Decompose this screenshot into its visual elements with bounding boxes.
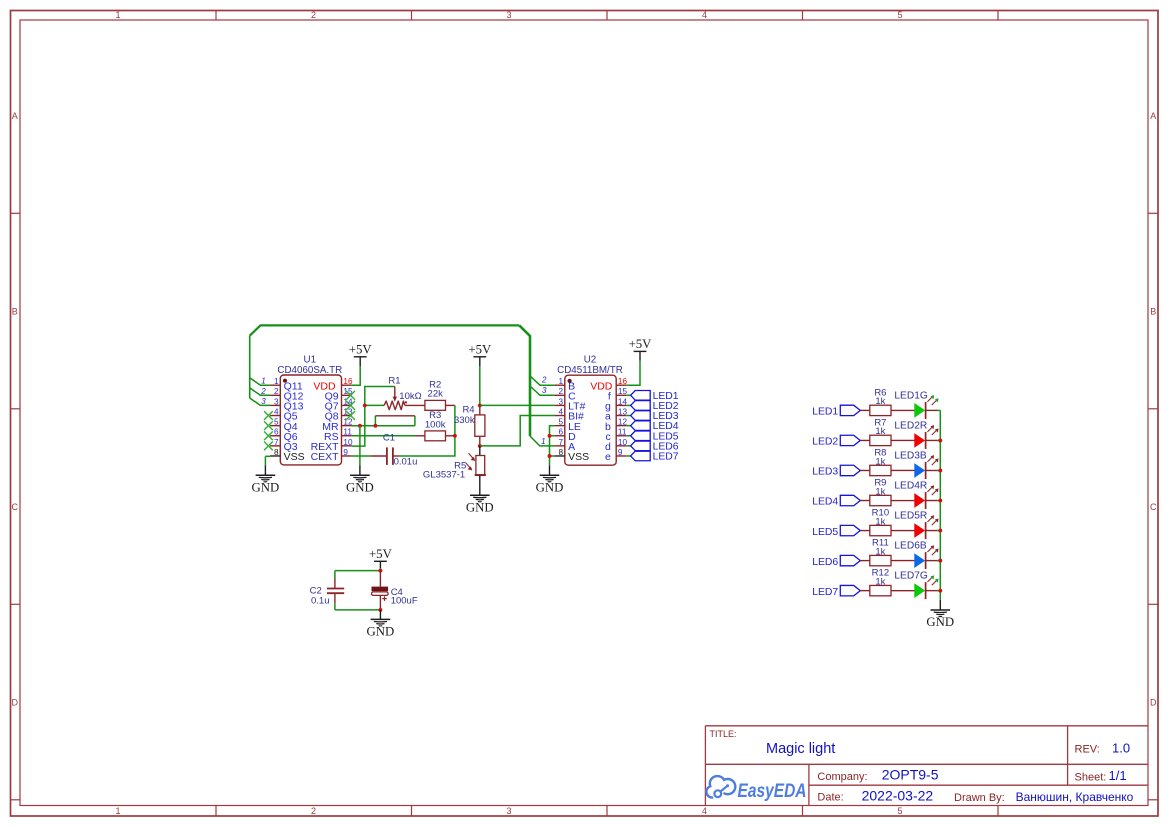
svg-text:5: 5 [559,418,564,427]
wire net 3 to U2.C [530,386,555,395]
U1 pin numbers [274,377,353,457]
svg-text:C: C [12,502,19,512]
wire LED ground rail [939,410,941,610]
svg-text:100k: 100k [425,419,446,430]
junction MR loop branch [373,424,377,428]
svg-text:A: A [1150,111,1156,121]
net flag LED2 (array input) [812,435,860,447]
resistor R7 1k [860,435,914,445]
svg-text:2: 2 [274,387,279,396]
svg-text:9: 9 [343,448,348,457]
svg-text:2: 2 [559,387,564,396]
wire R4 top to U2 LT# [480,404,555,406]
net flag LED5 (array input) [812,525,860,537]
svg-text:10kΩ: 10kΩ [399,391,421,402]
svg-text:1: 1 [559,377,564,386]
bus wire numbers at U2 [541,376,547,446]
svg-text:5: 5 [897,806,902,816]
svg-text:e: e [605,451,611,463]
resistor R10 1k [860,525,914,535]
svg-text:U1: U1 [304,354,317,365]
junction MR-GND branch [358,424,362,428]
svg-text:LED5: LED5 [812,527,838,538]
net flag LED7 at U2 pin 9 [626,451,679,462]
wire U1 CEXT to C1 [352,455,371,457]
wire U1 VSS to ground [265,456,270,475]
svg-text:14: 14 [618,397,628,406]
wire C4 bottom to ground [379,610,381,620]
resistor R2 22k [425,400,455,410]
wire bus U1 outputs to U2 inputs [250,325,530,436]
svg-text:C: C [1150,502,1157,512]
svg-text:6: 6 [559,428,564,437]
svg-text:LED1G: LED1G [894,391,927,402]
svg-text:1: 1 [274,377,279,386]
svg-text:22k: 22k [428,389,444,400]
svg-text:3: 3 [274,397,279,406]
svg-text:2OPT9-5: 2OPT9-5 [882,766,939,782]
svg-text:6: 6 [274,428,279,437]
capacitor C1 0.01u [371,447,400,465]
svg-text:REV:: REV: [1075,744,1100,756]
junction R4 bottom [478,444,482,448]
svg-text:1: 1 [541,437,545,446]
junction C4 bottom [378,608,382,612]
svg-text:1k: 1k [875,426,885,437]
wire LED5 cathode to ground rail [937,530,940,532]
svg-text:GND: GND [536,481,564,495]
wire net 1 to U2.A [530,436,555,446]
svg-text:16: 16 [343,377,353,386]
junction LED4 cathode [938,499,942,503]
junction U2 VSS [548,454,552,458]
svg-text:1k: 1k [875,576,885,587]
svg-text:Sheet:: Sheet: [1075,771,1107,783]
capacitor C2 0.1u [327,579,344,604]
svg-text:B: B [12,307,18,317]
net flag LED1 (array input) [812,405,860,417]
wire U1 RS to R3 [352,435,416,437]
resistor R8 1k [860,465,914,475]
svg-text:LED1: LED1 [812,407,838,418]
svg-text:0.1u: 0.1u [311,595,330,606]
svg-text:2: 2 [311,10,316,20]
svg-text:B: B [1150,307,1156,317]
svg-text:GND: GND [367,625,395,639]
+5V supply at R4 [468,343,492,357]
svg-text:10: 10 [343,438,353,447]
svg-text:+5V: +5V [629,337,653,351]
svg-text:CD4060SA.TR: CD4060SA.TR [277,365,342,376]
svg-text:1k: 1k [875,486,885,497]
junction LED7 cathode [938,589,942,593]
svg-text:16: 16 [618,377,628,386]
photoresistor R5 GL3537-1 [466,446,486,476]
svg-text:LED4R: LED4R [894,481,927,492]
LED D3 LED3B [915,455,939,479]
svg-text:LED2R: LED2R [894,421,927,432]
wire +5V to C2/C4 [335,561,381,578]
junction LED3 cathode [938,469,942,473]
svg-text:9: 9 [618,448,623,457]
net flag LED6 (array input) [812,555,860,567]
svg-text:+5V: +5V [369,547,393,561]
svg-text:2: 2 [311,806,316,816]
capacitor C4 100uF electrolytic [372,571,389,610]
net flag LED4 (array input) [812,495,860,507]
svg-text:R1: R1 [388,375,400,386]
wire LED4 cathode to ground rail [937,500,940,502]
svg-text:4: 4 [702,806,707,816]
svg-text:3: 3 [542,386,547,395]
svg-text:LED3: LED3 [812,467,838,478]
svg-text:1: 1 [115,806,120,816]
+5V supply at U1 VDD [349,343,373,357]
LED D4 LED4R [915,485,939,509]
wire +5V to U2 pin16 [626,351,640,385]
svg-text:7: 7 [274,438,279,447]
wire LED2 cathode to ground rail [937,439,940,441]
svg-text:Ванюшин, Кравченко: Ванюшин, Кравченко [1016,790,1134,804]
wire R1 wiper / left terminal / U1 REXT [352,387,395,447]
resistor R9 1k [860,495,914,505]
svg-text:4: 4 [702,10,707,20]
svg-text:VSS: VSS [284,451,305,463]
wire R4 bottom to U2 BI# [480,416,555,446]
EasyEDA logo [706,776,806,802]
svg-text:5: 5 [897,10,902,20]
svg-text:10: 10 [618,438,628,447]
svg-text:GND: GND [466,500,494,514]
svg-text:TITLE:: TITLE: [710,729,737,739]
svg-text:1k: 1k [875,516,885,527]
resistor R4 330k [475,405,485,446]
wire LED7 cathode to ground rail [937,590,940,592]
junction C4 top [378,569,382,573]
svg-text:D: D [1150,698,1157,708]
resistor R12 1k [860,585,914,595]
svg-text:4: 4 [559,407,564,416]
svg-text:11: 11 [343,428,352,437]
svg-text:1.0: 1.0 [1112,741,1130,756]
svg-text:2022-03-22: 2022-03-22 [862,787,934,803]
svg-text:A: A [12,111,18,121]
svg-text:1k: 1k [875,456,885,467]
wire R2/R3 right to U1 CEXT [399,405,455,456]
svg-text:11: 11 [618,428,627,437]
svg-text:GL3537-1: GL3537-1 [423,470,465,481]
title block [705,726,1148,806]
svg-text:VSS: VSS [568,451,589,463]
svg-text:0.01u: 0.01u [394,456,418,467]
svg-text:CEXT: CEXT [311,451,340,463]
junction LED2 cathode [938,438,942,442]
wire C2 bottom to C4 bottom [335,603,381,610]
svg-text:LED7: LED7 [653,451,679,462]
wire R5 to ground [479,475,481,495]
svg-text:Company:: Company: [817,771,867,783]
wire net 2 U1.Q12 [250,388,270,395]
svg-text:3: 3 [261,397,266,406]
ground at R5 [466,495,494,514]
U1 no-connect marks pins 4-7 [264,411,273,450]
svg-text:LED4: LED4 [812,497,838,508]
svg-text:CD4511BM/TR: CD4511BM/TR [557,365,623,376]
svg-text:Date:: Date: [817,791,843,803]
junction R3 right terminal [453,434,457,438]
net flag LED6 at U2 pin 10 [626,441,679,452]
svg-text:15: 15 [618,387,628,396]
svg-text:1: 1 [261,377,265,386]
LED D5 LED5R [915,515,939,539]
net flag LED5 at U2 pin 11 [626,431,679,442]
svg-text:5: 5 [274,418,279,427]
wire U1 MR net with loop [352,416,415,426]
svg-text:GND: GND [926,615,954,629]
svg-text:U2: U2 [584,354,597,365]
svg-text:7: 7 [559,438,564,447]
wire U2 LE,D,VSS to ground [550,426,555,476]
svg-text:LED6: LED6 [812,557,838,568]
IC U1 CD4060SA.TR [270,375,352,465]
svg-text:1: 1 [115,10,120,20]
wire MR to ground [359,426,361,476]
svg-text:4: 4 [274,407,279,416]
net flag LED1 at U2 pin 15 [626,391,679,402]
U1 pin names [284,380,340,463]
bus wire numbers at U1 [260,377,266,406]
svg-text:2: 2 [260,387,266,396]
svg-text:8: 8 [559,448,564,457]
resistor R1 10k potentiometer [384,387,425,410]
svg-text:D: D [12,698,19,708]
svg-text:2: 2 [541,376,547,385]
svg-text:R4: R4 [462,404,474,415]
svg-text:LED6B: LED6B [894,541,926,552]
svg-text:3: 3 [506,806,511,816]
svg-text:8: 8 [274,448,279,457]
wire +5V to R4 top [479,357,481,406]
wire net 1 U1.Q11 [250,378,270,385]
resistor R11 1k [860,555,914,565]
+5V supply at U2 VDD [629,337,653,351]
U1 no-connect marks pins 15,14,13 [346,391,355,420]
title block texts [710,729,1134,804]
ground at U1 MR [346,475,374,494]
svg-text:13: 13 [618,407,628,416]
svg-text:3: 3 [506,10,511,20]
junction R1 left terminal [363,403,367,407]
net flag LED3 (array input) [812,465,860,477]
ground at LED rail [926,610,954,629]
LED D1 LED1G [915,395,939,419]
svg-text:330k: 330k [454,415,475,426]
svg-text:1k: 1k [875,546,885,557]
svg-text:3: 3 [559,397,564,406]
wire net 3 U1.Q13 [250,398,270,405]
resistor R3 100k [416,431,455,441]
svg-text:1/1: 1/1 [1109,768,1127,783]
svg-text:12: 12 [618,418,628,427]
svg-text:GND: GND [346,481,374,495]
svg-text:LED2: LED2 [812,437,838,448]
svg-text:100uF: 100uF [391,595,418,606]
wire net 2 to U2.B [530,376,555,385]
junction U2 D [548,434,552,438]
svg-text:+5V: +5V [349,343,373,357]
IC U2 CD4511BM/TR [555,375,627,465]
svg-text:Magic light: Magic light [766,741,835,757]
svg-text:1k: 1k [875,396,885,407]
svg-text:LED3B: LED3B [894,451,926,462]
LED D7 LED7G [915,575,939,599]
svg-text:EasyEDA: EasyEDA [738,781,807,802]
junction LED6 cathode [938,559,942,563]
wire LED3 cathode to ground rail [937,469,940,471]
ground at U1 VSS [252,475,280,494]
svg-text:LED7G: LED7G [894,571,927,582]
svg-text:+5V: +5V [468,343,492,357]
U2 pin numbers [559,377,628,457]
svg-text:C1: C1 [383,433,395,444]
net flag LED4 at U2 pin 12 [626,421,679,432]
resistor R6 1k [860,405,914,415]
LED D2 LED2R [915,425,939,449]
junction R4 top [478,403,482,407]
svg-text:LED5R: LED5R [894,511,927,522]
svg-text:GND: GND [252,481,280,495]
wire LED6 cathode to ground rail [937,560,940,562]
net flag LED3 at U2 pin 13 [626,411,679,422]
ground at C2/C4 [367,619,395,638]
net flag LED7 (array input) [812,585,860,597]
LED D6 LED6B [915,545,939,569]
svg-text:Drawn By:: Drawn By: [954,792,1005,804]
+5V supply at C2/C4 [369,547,393,561]
junction LED5 cathode [938,529,942,533]
wire +5V to U1 pin16 [352,357,361,385]
wire LED1 cathode to ground rail [937,409,940,411]
ground at U2 VSS [536,475,564,494]
U2 pin names [568,380,613,463]
svg-text:LED7: LED7 [812,587,838,598]
net flag LED2 at U2 pin 14 [626,401,679,412]
